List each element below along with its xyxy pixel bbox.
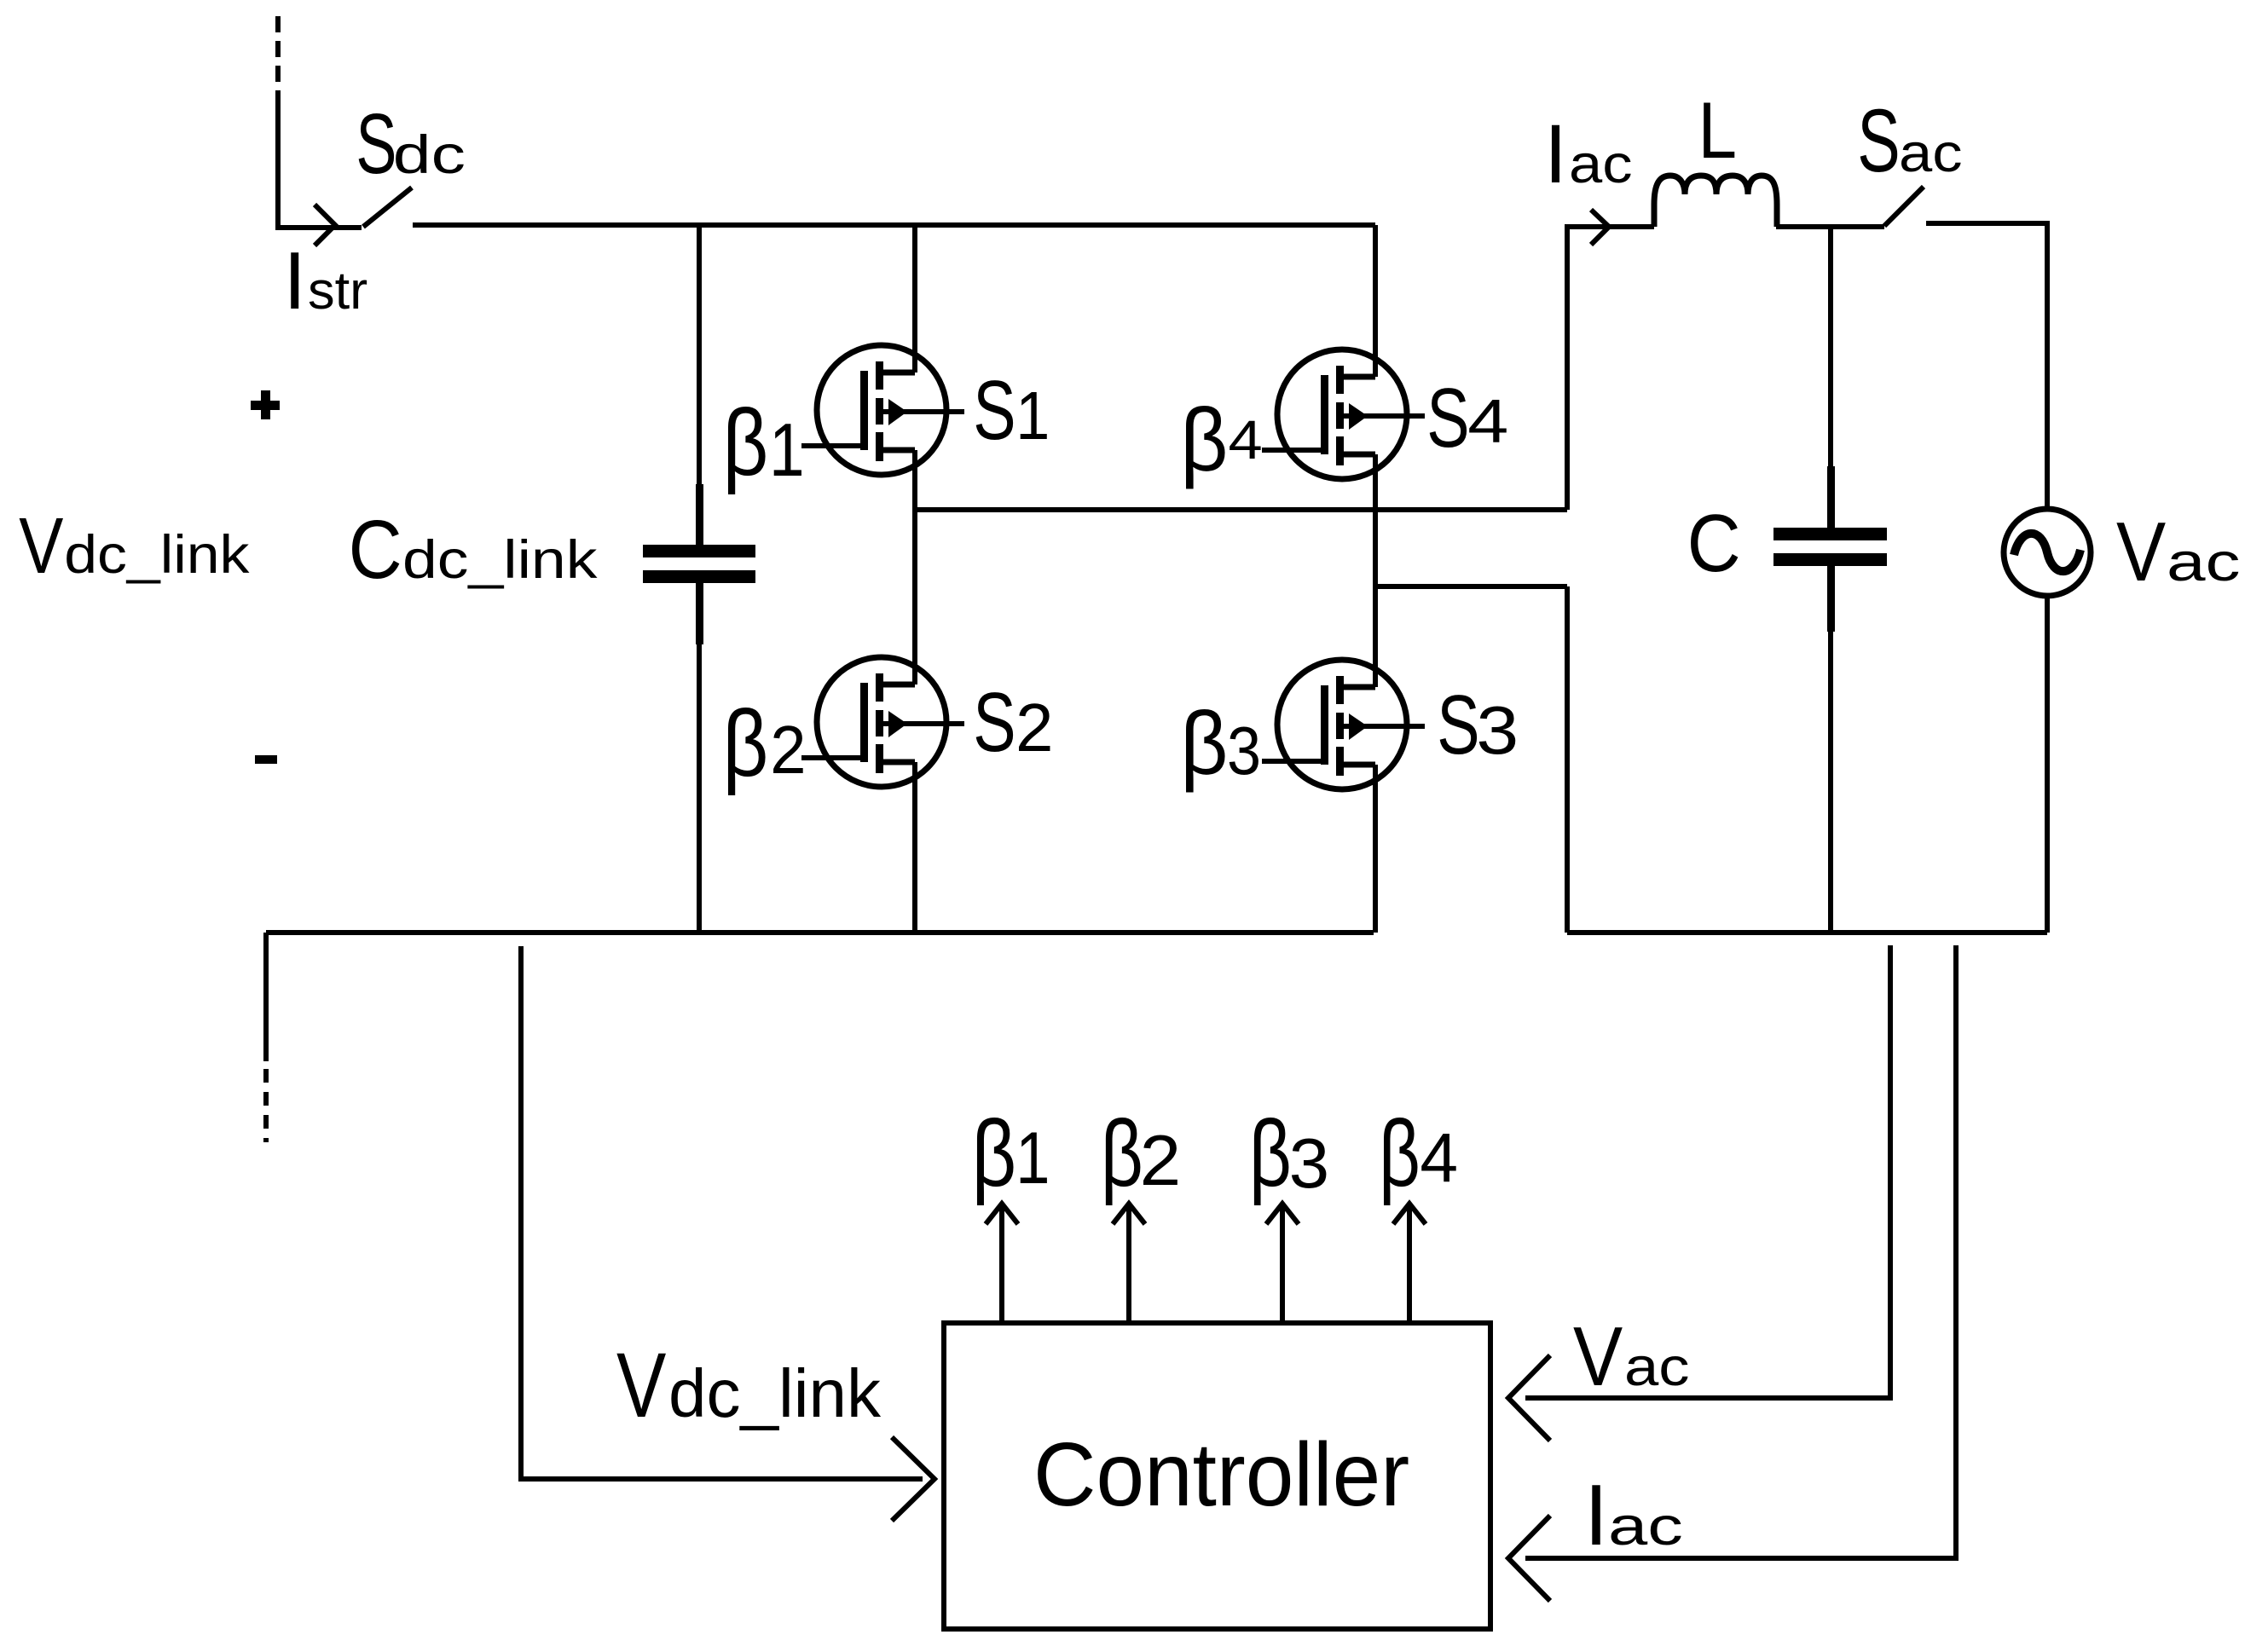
svg-text:1: 1 — [769, 408, 805, 492]
svg-text:dc_link: dc_link — [402, 530, 598, 590]
wire: Vac bottom lead — [2045, 596, 2050, 933]
wire: DC string return dashed tail — [263, 1069, 269, 1142]
wire: Vac sense line to controller — [1525, 945, 1890, 1398]
wire: cap C top lead — [1828, 225, 1833, 470]
svg-text:S: S — [973, 363, 1015, 457]
svg-text:3: 3 — [1227, 713, 1261, 789]
svg-text:β: β — [1379, 1100, 1420, 1205]
wire: Vdc_link sense line to controller — [521, 946, 923, 1479]
switch Sac blade — [1884, 187, 1924, 226]
svg-text:V: V — [2116, 505, 2166, 598]
arrowhead: Vdc_link into controller — [892, 1437, 934, 1521]
transistor S1 (MOSFET) — [801, 345, 964, 475]
wire: bridge output node B line (S3/S4 midpoint) — [1375, 584, 1567, 589]
svg-text:Controller: Controller — [1033, 1424, 1409, 1525]
wire: DC string return solid (bottom-left) — [263, 933, 269, 1061]
svg-text:1: 1 — [1015, 1117, 1050, 1199]
svg-text:I: I — [1544, 107, 1567, 200]
wire: right bridge leg upper (top rail to S4 drain) — [1373, 225, 1378, 377]
capacitor C plates — [1773, 528, 1887, 540]
svg-text:3: 3 — [1289, 1123, 1330, 1203]
svg-text:str: str — [308, 262, 367, 321]
svg-text:S: S — [356, 96, 396, 191]
wire: inductor to Sac switch — [1776, 224, 1884, 229]
transistor S3 (MOSFET) — [1262, 660, 1425, 789]
svg-text:ac: ac — [1899, 123, 1963, 183]
AC source Vac circle — [2004, 509, 2091, 596]
wire: beta1 gate drive arrow — [999, 1207, 1004, 1323]
svg-text:β: β — [1180, 390, 1228, 490]
wire: DC bottom rail — [266, 930, 1374, 935]
sine symbol inside Vac — [2014, 534, 2080, 571]
svg-text:ac: ac — [1569, 134, 1633, 194]
svg-text:2: 2 — [770, 711, 806, 788]
wire: node B drop to AC bottom rail — [1565, 586, 1570, 933]
svg-text:I: I — [283, 235, 306, 326]
svg-text:3: 3 — [1476, 691, 1519, 767]
wire: beta2 gate drive arrow — [1126, 1207, 1131, 1323]
wire: cap C bottom lead — [1827, 566, 1835, 632]
svg-text:S: S — [1437, 678, 1479, 771]
label + (positive terminal) — [251, 401, 280, 410]
svg-text:β: β — [1101, 1101, 1143, 1206]
wire: right bridge leg lower (S3 source to bottom rail) — [1373, 765, 1378, 933]
svg-text:2: 2 — [1140, 1121, 1182, 1201]
svg-text:V: V — [19, 502, 63, 591]
svg-text:S: S — [1426, 371, 1469, 465]
wire: Cdc_link top lead — [697, 225, 702, 488]
wire: Cdc_link bottom lead — [696, 583, 703, 644]
svg-text:2: 2 — [1015, 690, 1054, 765]
svg-text:V: V — [616, 1333, 667, 1436]
node Iac arrow on output wire — [1591, 210, 1609, 245]
transistor S4 (MOSFET) — [1262, 349, 1425, 479]
svg-text:dc_link: dc_link — [64, 525, 250, 585]
wire: top DC rail — [413, 222, 1375, 228]
svg-text:S: S — [973, 675, 1015, 769]
svg-text:β: β — [1180, 694, 1228, 794]
svg-text:ac: ac — [1608, 1496, 1683, 1557]
svg-text:β: β — [723, 390, 769, 495]
svg-text:ac: ac — [1624, 1337, 1690, 1397]
svg-text:dc_link: dc_link — [668, 1355, 882, 1431]
svg-text:4: 4 — [1420, 1119, 1458, 1197]
svg-text:C: C — [1687, 498, 1741, 589]
svg-text:β: β — [972, 1101, 1017, 1206]
node Istr arrow on DC input wire — [315, 205, 335, 245]
wire: bridge output node A line (S1/S2 midpoint to AC filter) — [915, 507, 1567, 512]
svg-text:4: 4 — [1229, 410, 1263, 471]
wire: riser to inductor — [1567, 227, 1654, 510]
svg-text:I: I — [1584, 1468, 1608, 1563]
svg-text:L: L — [1698, 85, 1737, 176]
svg-text:C: C — [349, 503, 402, 596]
inductor L — [1654, 176, 1777, 227]
svg-text:dc: dc — [393, 125, 466, 185]
label - (negative terminal) — [255, 755, 277, 764]
arrowhead: Iac into controller — [1508, 1516, 1550, 1601]
svg-text:β: β — [1249, 1101, 1292, 1206]
wire: left bridge leg middle (S1 source to S2 drain) — [912, 450, 917, 684]
switch Sdc blade — [363, 188, 412, 227]
wire: beta4 gate drive arrow — [1407, 1207, 1412, 1323]
wire: AC bottom rail — [1567, 930, 2047, 935]
wire: left bridge leg lower (S2 source to bottom rail) — [912, 762, 917, 933]
svg-text:β: β — [723, 691, 769, 796]
arrowhead: Vac into controller — [1508, 1355, 1550, 1441]
transistor S2 (MOSFET) — [801, 657, 964, 787]
svg-text:V: V — [1573, 1309, 1623, 1403]
svg-text:ac: ac — [2167, 533, 2240, 592]
capacitor Cdc_link plates — [643, 545, 755, 557]
svg-text:1: 1 — [1015, 378, 1050, 454]
wire: beta3 gate drive arrow — [1280, 1207, 1285, 1323]
wire: Sac fixed contact to Vac — [1926, 223, 2047, 509]
wire: DC string input dashed entry (top-left) — [275, 16, 281, 95]
svg-text:4: 4 — [1467, 387, 1508, 456]
wire: left bridge leg upper (top rail to S1 drain) — [912, 225, 917, 373]
svg-text:S: S — [1857, 91, 1900, 191]
controller box — [944, 1323, 1490, 1629]
wire: right bridge leg middle (S4 source to S3 drain) — [1373, 454, 1378, 687]
wire: DC string input solid drop to corner — [278, 92, 362, 228]
wire: Iac sense line to controller — [1525, 945, 1956, 1558]
